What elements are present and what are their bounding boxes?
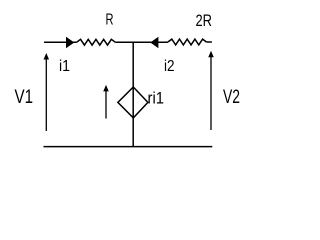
svg-text:2R: 2R	[196, 11, 213, 30]
svg-text:ri1: ri1	[148, 89, 165, 108]
svg-text:R: R	[106, 12, 114, 29]
svg-text:i1: i1	[59, 58, 70, 75]
svg-text:V2: V2	[223, 87, 240, 108]
svg-text:i2: i2	[164, 58, 175, 75]
svg-text:V1: V1	[15, 87, 34, 108]
